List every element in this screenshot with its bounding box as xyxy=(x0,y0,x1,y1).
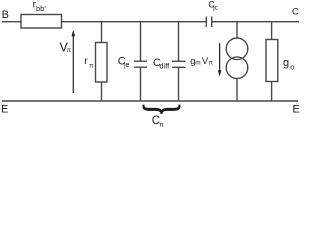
svg-text:{: { xyxy=(136,102,184,116)
svg-text:E: E xyxy=(1,103,8,115)
svg-text:r: r xyxy=(84,55,88,67)
svg-text:m: m xyxy=(195,60,200,67)
svg-text:o: o xyxy=(290,62,294,71)
svg-text:je: je xyxy=(123,62,130,69)
svg-text:bb′: bb′ xyxy=(36,4,46,13)
svg-text:B: B xyxy=(2,9,9,21)
svg-text:C: C xyxy=(292,6,299,17)
svg-text:jc: jc xyxy=(212,4,218,11)
svg-text:g: g xyxy=(283,57,289,69)
svg-text:π: π xyxy=(159,121,164,128)
svg-text:diff: diff xyxy=(159,62,170,71)
svg-text:E: E xyxy=(292,103,299,115)
svg-text:π: π xyxy=(67,47,72,54)
svg-text:π: π xyxy=(209,60,214,67)
svg-text:π: π xyxy=(89,63,94,70)
